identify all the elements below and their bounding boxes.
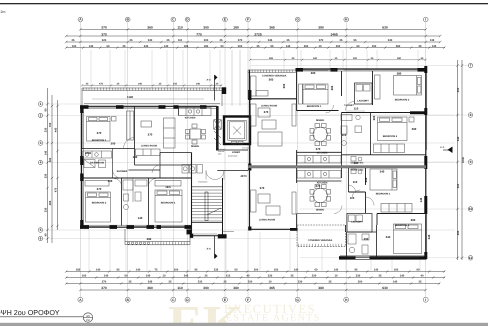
- svg-text:75: 75: [155, 269, 158, 272]
- svg-text:365: 365: [269, 78, 274, 82]
- svg-text:770: 770: [196, 32, 202, 36]
- svg-text:10: 10: [319, 45, 322, 48]
- svg-text:90: 90: [221, 45, 224, 48]
- central bath fixtures: [123, 178, 147, 210]
- svg-text:140: 140: [96, 269, 101, 272]
- svg-text:140: 140: [164, 45, 169, 48]
- svg-text:335: 335: [214, 269, 219, 272]
- svg-text:140: 140: [400, 275, 405, 278]
- svg-text:360: 360: [412, 127, 417, 131]
- svg-text:25: 25: [419, 45, 422, 48]
- svg-text:585: 585: [49, 157, 52, 162]
- svg-text:A-A: A-A: [207, 79, 212, 82]
- bottom apt corridor walls: [297, 168, 349, 232]
- bathroom bottom apt: [347, 225, 377, 258]
- svg-text:25: 25: [220, 39, 223, 42]
- svg-text:370: 370: [316, 147, 321, 151]
- svg-text:4: 4: [40, 161, 42, 165]
- title underline: [0, 316, 83, 318]
- bedroom3 bottom wall: [342, 154, 427, 156]
- svg-text:STAIRCASE: STAIRCASE: [198, 181, 208, 184]
- kitchen counter left wing: [179, 108, 212, 116]
- svg-text:90: 90: [45, 108, 48, 111]
- svg-text:380: 380: [397, 57, 402, 60]
- svg-text:140: 140: [374, 269, 379, 272]
- svg-text:BATHROOM: BATHROOM: [90, 162, 104, 165]
- svg-text:LIVING ROOM: LIVING ROOM: [261, 105, 277, 108]
- svg-text:110: 110: [353, 180, 358, 184]
- svg-text:445: 445: [55, 127, 58, 132]
- svg-text:140: 140: [393, 281, 398, 284]
- svg-text:370: 370: [101, 32, 107, 36]
- svg-text:110: 110: [342, 133, 347, 137]
- svg-text:1065: 1065: [85, 151, 92, 155]
- veranda hatch: [249, 69, 295, 72]
- section flag right: [440, 146, 453, 153]
- svg-text:110: 110: [354, 107, 359, 111]
- svg-text:400: 400: [457, 87, 460, 92]
- bed bedroom1 top-left: [87, 117, 117, 142]
- balcony balusters: [127, 242, 149, 244]
- svg-text:25: 25: [379, 275, 382, 278]
- top dimension row 1: [80, 28, 425, 30]
- dining table left wing: [186, 124, 206, 144]
- svg-text:370: 370: [238, 39, 243, 42]
- svg-text:345: 345: [386, 235, 391, 239]
- bedroom2/bath strip wall: [121, 178, 123, 226]
- svg-text:140: 140: [286, 45, 291, 48]
- stairwell: [192, 178, 223, 236]
- thick segment below bedroom2: [410, 111, 426, 114]
- stair bottom pier: [218, 234, 227, 238]
- vanity counter: [83, 151, 112, 168]
- svg-text:370: 370: [148, 133, 153, 137]
- svg-text:300: 300: [358, 281, 363, 284]
- svg-text:CLOSET: CLOSET: [344, 104, 354, 107]
- svg-text:492: 492: [147, 237, 152, 241]
- svg-text:DINING: DINING: [316, 209, 325, 212]
- elevator: [224, 117, 250, 145]
- top wall piers: [296, 68, 428, 72]
- svg-text:300: 300: [336, 45, 341, 48]
- right wall piers: [424, 66, 427, 259]
- svg-text:F: F: [247, 298, 249, 302]
- svg-text:365: 365: [269, 286, 275, 290]
- svg-text:380: 380: [396, 45, 401, 48]
- svg-text:BEDROOM 2: BEDROOM 2: [92, 202, 107, 205]
- svg-text:135: 135: [432, 45, 437, 48]
- flat text block: [218, 147, 249, 158]
- svg-text:A-A: A-A: [207, 248, 212, 251]
- svg-text:330: 330: [298, 281, 303, 284]
- bed bedroom1 top apt: [299, 70, 329, 104]
- svg-text:ΟΨΗ 2ου ΟΡΟΦΟΥ: ΟΨΗ 2ου ΟΡΟΦΟΥ: [0, 308, 60, 317]
- right grid bubbles 7-11: [468, 63, 473, 260]
- svg-text:140: 140: [104, 275, 109, 278]
- svg-text:25: 25: [287, 39, 290, 42]
- svg-text:10: 10: [269, 281, 272, 284]
- svg-text:360: 360: [147, 26, 153, 30]
- watermark EK EXECUTIVES ESTATE AGENTS: [168, 296, 321, 326]
- svg-text:25: 25: [169, 281, 172, 284]
- svg-text:300: 300: [174, 269, 179, 272]
- veranda top-right: [248, 70, 296, 99]
- svg-text:200: 200: [364, 237, 369, 241]
- svg-text:25: 25: [340, 39, 343, 42]
- laundry top apt: [355, 83, 373, 104]
- svg-text:365: 365: [457, 183, 460, 188]
- svg-text:140: 140: [419, 197, 423, 202]
- svg-text:300: 300: [238, 45, 243, 48]
- svg-text:300: 300: [203, 286, 209, 290]
- svg-text:185: 185: [184, 45, 189, 48]
- svg-text:345: 345: [427, 234, 431, 239]
- svg-text:140: 140: [89, 45, 94, 48]
- kitchen bottom apt: [297, 171, 341, 179]
- svg-text:9: 9: [470, 160, 472, 164]
- party wall (gray): [248, 165, 426, 168]
- svg-text:DINING: DINING: [191, 145, 200, 148]
- svg-text:100: 100: [72, 45, 77, 48]
- svg-text:DINING: DINING: [316, 119, 325, 122]
- svg-text:25: 25: [167, 39, 170, 42]
- section flag top: [207, 75, 218, 101]
- svg-text:300: 300: [204, 39, 209, 42]
- svg-text:19.5: 19.5: [165, 185, 171, 189]
- bottom dimension rows: [66, 272, 445, 291]
- laundry bottom apt: [347, 214, 372, 233]
- svg-text:BEDROOM 3: BEDROOM 3: [161, 202, 176, 205]
- svg-text:25: 25: [205, 275, 208, 278]
- svg-text:4973: 4973: [240, 174, 247, 178]
- svg-text:105: 105: [173, 83, 178, 86]
- svg-text:370: 370: [97, 131, 102, 135]
- bed bedroom1 bottom apt: [370, 169, 397, 190]
- living room top apt: [251, 104, 297, 146]
- svg-text:160: 160: [394, 269, 399, 272]
- svg-text:A6: A6: [86, 314, 90, 318]
- svg-text:180: 180: [204, 45, 209, 48]
- svg-text:150: 150: [372, 45, 377, 48]
- right exterior wall: [425, 66, 427, 259]
- right leader lines: [250, 66, 468, 258]
- svg-text:185: 185: [76, 269, 81, 272]
- svg-text:25: 25: [257, 45, 260, 48]
- svg-text:630: 630: [382, 26, 388, 30]
- svg-text:380: 380: [397, 72, 402, 76]
- svg-text:8: 8: [470, 113, 472, 117]
- svg-text:360: 360: [147, 286, 153, 290]
- bedroom1 bottom apt walls: [349, 168, 366, 213]
- svg-text:COVERED VERANDA: COVERED VERANDA: [308, 239, 333, 242]
- svg-text:2725: 2725: [254, 32, 262, 36]
- door arcs bottom apt: [334, 185, 374, 214]
- svg-text:360: 360: [330, 85, 334, 90]
- window lines top wall left wing: [82, 70, 426, 257]
- svg-text:370: 370: [264, 110, 269, 114]
- svg-text:140: 140: [334, 269, 339, 272]
- svg-text:10: 10: [469, 207, 473, 211]
- svg-text:25: 25: [129, 281, 132, 284]
- living room bottom apt: [251, 190, 297, 215]
- svg-text:1140: 1140: [127, 95, 134, 99]
- svg-text:220: 220: [312, 275, 317, 278]
- svg-text:KITCHEN: KITCHEN: [317, 152, 328, 155]
- bedroom1/living partition: [134, 106, 136, 165]
- top dimension row 4: [66, 47, 445, 49]
- svg-text:340: 340: [144, 45, 149, 48]
- svg-text:150: 150: [274, 269, 279, 272]
- svg-text:300: 300: [108, 179, 113, 183]
- svg-text:SHOWER: SHOWER: [117, 170, 128, 173]
- svg-text:25: 25: [329, 281, 332, 284]
- svg-text:330: 330: [45, 207, 48, 212]
- svg-text:370: 370: [97, 187, 102, 191]
- bedroom2 top apt walls: [342, 71, 427, 113]
- svg-text:380: 380: [318, 26, 324, 30]
- svg-text:25: 25: [291, 275, 294, 278]
- top border line: [0, 3, 488, 4]
- svg-text:370: 370: [319, 39, 324, 42]
- svg-text:300: 300: [203, 26, 209, 30]
- svg-text:25: 25: [130, 39, 133, 42]
- svg-text:365: 365: [269, 26, 275, 30]
- svg-text:330: 330: [45, 173, 48, 178]
- svg-text:10: 10: [335, 275, 338, 278]
- svg-text:340: 340: [380, 170, 385, 174]
- svg-text:95: 95: [271, 45, 274, 48]
- svg-text:7: 7: [470, 64, 472, 68]
- svg-text:300: 300: [353, 57, 358, 60]
- svg-text:360: 360: [372, 115, 376, 120]
- left grid bubbles 1-6: [38, 102, 43, 241]
- dining table top apt: [310, 124, 331, 146]
- svg-text:110: 110: [177, 286, 182, 290]
- svg-text:A-A: A-A: [440, 146, 445, 149]
- door arcs left wing: [113, 138, 225, 187]
- vertical grid lines: [80, 22, 425, 298]
- svg-text:340: 340: [313, 57, 318, 60]
- svg-text:BEDROOM 2: BEDROOM 2: [395, 99, 410, 102]
- svg-text:60: 60: [357, 45, 360, 48]
- bedroom1 bottom wall: [81, 148, 135, 150]
- svg-text:I: I: [425, 18, 426, 22]
- living/veranda wall top apt: [248, 98, 297, 100]
- svg-text:2m: 2m: [1, 10, 6, 14]
- svg-text:340: 340: [196, 83, 201, 86]
- svg-text:50: 50: [125, 275, 128, 278]
- svg-text:475: 475: [55, 187, 58, 192]
- kitchen back wall: [178, 106, 180, 115]
- stair treads: [192, 190, 234, 232]
- left wing right wall / core left wall: [216, 106, 219, 151]
- svg-text:250: 250: [304, 45, 309, 48]
- bed bedroom3 bottom: [155, 181, 182, 223]
- kitchen top apt: [297, 156, 341, 164]
- closet strip bedroom3 top apt: [374, 144, 405, 153]
- bottom balcony left wing: [125, 229, 190, 245]
- svg-text:140: 140: [138, 216, 143, 220]
- closet strip bottom apt: [381, 204, 412, 213]
- svg-text:95: 95: [117, 269, 120, 272]
- svg-text:25: 25: [224, 281, 227, 284]
- bottom grid bubbles A-I: [78, 297, 428, 302]
- svg-text:40: 40: [45, 233, 48, 236]
- svg-text:140: 140: [146, 275, 151, 278]
- left wing top wall: [81, 106, 217, 108]
- svg-text:COVERED VERANDA: COVERED VERANDA: [262, 75, 287, 78]
- svg-text:I: I: [425, 298, 426, 302]
- top wall piers: [80, 105, 207, 109]
- living/kitchen wall stubs right wing: [297, 150, 342, 229]
- svg-text:340: 340: [138, 83, 143, 86]
- bottom wall right wing: [339, 255, 427, 259]
- svg-text:110: 110: [177, 26, 182, 30]
- left dimension lines: [48, 88, 58, 243]
- bed bedroom2 bottom apt: [394, 224, 422, 254]
- svg-text:BEDROOM 1: BEDROOM 1: [92, 139, 107, 142]
- right wing top wall: [297, 69, 427, 71]
- bed bedroom3 top apt: [378, 117, 415, 141]
- left wall piers: [80, 106, 83, 228]
- svg-text:135: 135: [430, 39, 435, 42]
- left exterior wall: [82, 106, 84, 227]
- bedroom2 bottom apt walls: [377, 214, 426, 226]
- svg-text:25: 25: [72, 39, 75, 42]
- top dimension row 2: [66, 35, 440, 37]
- dim row above balcony: [82, 84, 222, 86]
- svg-text:140: 140: [45, 150, 48, 155]
- svg-text:1030: 1030: [462, 157, 465, 163]
- bottom balcony hatch: [152, 242, 189, 245]
- svg-text:40: 40: [421, 275, 424, 278]
- svg-text:1465: 1465: [330, 32, 338, 36]
- stair stringer: [205, 192, 221, 221]
- svg-text:300: 300: [254, 269, 259, 272]
- svg-text:5: 5: [40, 228, 42, 232]
- svg-text:95: 95: [355, 269, 358, 272]
- stair top landing line: [192, 186, 223, 188]
- left wing bottom wall: [81, 225, 192, 227]
- svg-text:150: 150: [86, 319, 91, 322]
- left leader lines: [43, 104, 455, 239]
- lobby walls: [217, 100, 250, 171]
- svg-text:40: 40: [247, 275, 250, 278]
- dining table bottom apt: [310, 185, 331, 207]
- balcony railing hatch: [83, 87, 221, 90]
- stair bottom window: [193, 233, 217, 235]
- svg-text:110: 110: [178, 39, 183, 42]
- left wall piers right wing: [248, 90, 251, 171]
- svg-text:370: 370: [101, 26, 107, 30]
- svg-text:BEDROOM 1: BEDROOM 1: [376, 193, 391, 196]
- svg-text:LOBBY: LOBBY: [232, 151, 241, 154]
- svg-text:G: G: [296, 18, 299, 22]
- svg-text:360: 360: [411, 218, 416, 222]
- svg-text:BEDROOM 1: BEDROOM 1: [307, 105, 322, 108]
- svg-text:345: 345: [148, 281, 153, 284]
- corridor arcs top apt: [326, 102, 355, 114]
- svg-text:G: G: [296, 298, 299, 302]
- svg-text:360: 360: [311, 71, 316, 75]
- bed bedroom2 top apt: [375, 75, 422, 99]
- svg-text:370: 370: [101, 286, 107, 290]
- svg-text:LIVING ROOM: LIVING ROOM: [259, 219, 275, 222]
- svg-text:370: 370: [102, 281, 107, 284]
- svg-text:LAUNDRY: LAUNDRY: [351, 221, 363, 224]
- svg-text:330: 330: [268, 275, 273, 278]
- dim row above right wing: [250, 59, 426, 61]
- bath strip/bedroom3 wall: [148, 178, 150, 226]
- svg-text:200: 200: [282, 83, 286, 88]
- svg-text:1: 1: [40, 102, 42, 106]
- svg-text:100: 100: [82, 275, 87, 278]
- svg-text:BEDROOM 3: BEDROOM 3: [383, 135, 398, 138]
- bedrooms top wall: [81, 177, 192, 179]
- svg-text:345: 345: [184, 275, 189, 278]
- svg-text:140: 140: [294, 269, 299, 272]
- living room sofa left wing: [136, 118, 176, 156]
- svg-text:140: 140: [136, 269, 141, 272]
- svg-text:343: 343: [364, 177, 368, 182]
- veranda sofa: [251, 76, 269, 96]
- svg-text:200: 200: [111, 142, 116, 146]
- drawing ref bubble: [83, 313, 92, 322]
- svg-text:2: 2: [40, 114, 42, 118]
- svg-text:340: 340: [388, 39, 393, 42]
- svg-text:11: 11: [469, 256, 473, 260]
- svg-text:25: 25: [419, 281, 422, 284]
- svg-text:213: 213: [226, 275, 231, 278]
- right dimension lines: [458, 60, 463, 260]
- top dimension row 3: [66, 41, 440, 43]
- svg-text:365: 365: [269, 57, 274, 60]
- top dim ticks: [65, 28, 445, 49]
- top grid bubbles A-I: [78, 17, 428, 22]
- svg-text:50: 50: [235, 269, 238, 272]
- svg-text:380: 380: [457, 230, 460, 235]
- svg-text:700: 700: [49, 122, 52, 127]
- bathroom top apt: [342, 113, 371, 156]
- bottom gray bar: [0, 323, 488, 326]
- svg-text:370: 370: [260, 186, 265, 190]
- svg-text:140: 140: [133, 155, 138, 159]
- top balcony left wing: [82, 88, 222, 106]
- living bottom wall: [250, 228, 298, 230]
- svg-text:ESTATE AGENTS: ESTATE AGENTS: [226, 313, 321, 324]
- svg-text:GUEST WC: GUEST WC: [351, 169, 364, 172]
- svg-text:220: 220: [248, 281, 253, 284]
- svg-text:630: 630: [382, 286, 388, 290]
- svg-text:230: 230: [45, 127, 48, 132]
- svg-text:95: 95: [354, 39, 357, 42]
- svg-text:LAUNDRY: LAUNDRY: [357, 100, 369, 103]
- svg-text:90: 90: [417, 269, 420, 272]
- bath internal partitions: [112, 149, 114, 179]
- svg-text:380: 380: [318, 286, 324, 290]
- living room bottom wall: [135, 164, 192, 166]
- svg-text:60: 60: [107, 45, 110, 48]
- svg-text:LIVING ROOM: LIVING ROOM: [141, 145, 157, 148]
- svg-text:25: 25: [123, 45, 126, 48]
- leader verticals top: [91, 50, 418, 88]
- guest wc fixtures top apt: [351, 157, 362, 175]
- balcony end post: [187, 229, 192, 234]
- svg-text:344: 344: [457, 136, 460, 141]
- right wing left wall bottom apt: [249, 168, 251, 230]
- wardrobe bedroom1: [127, 111, 134, 140]
- svg-text:110: 110: [350, 196, 355, 200]
